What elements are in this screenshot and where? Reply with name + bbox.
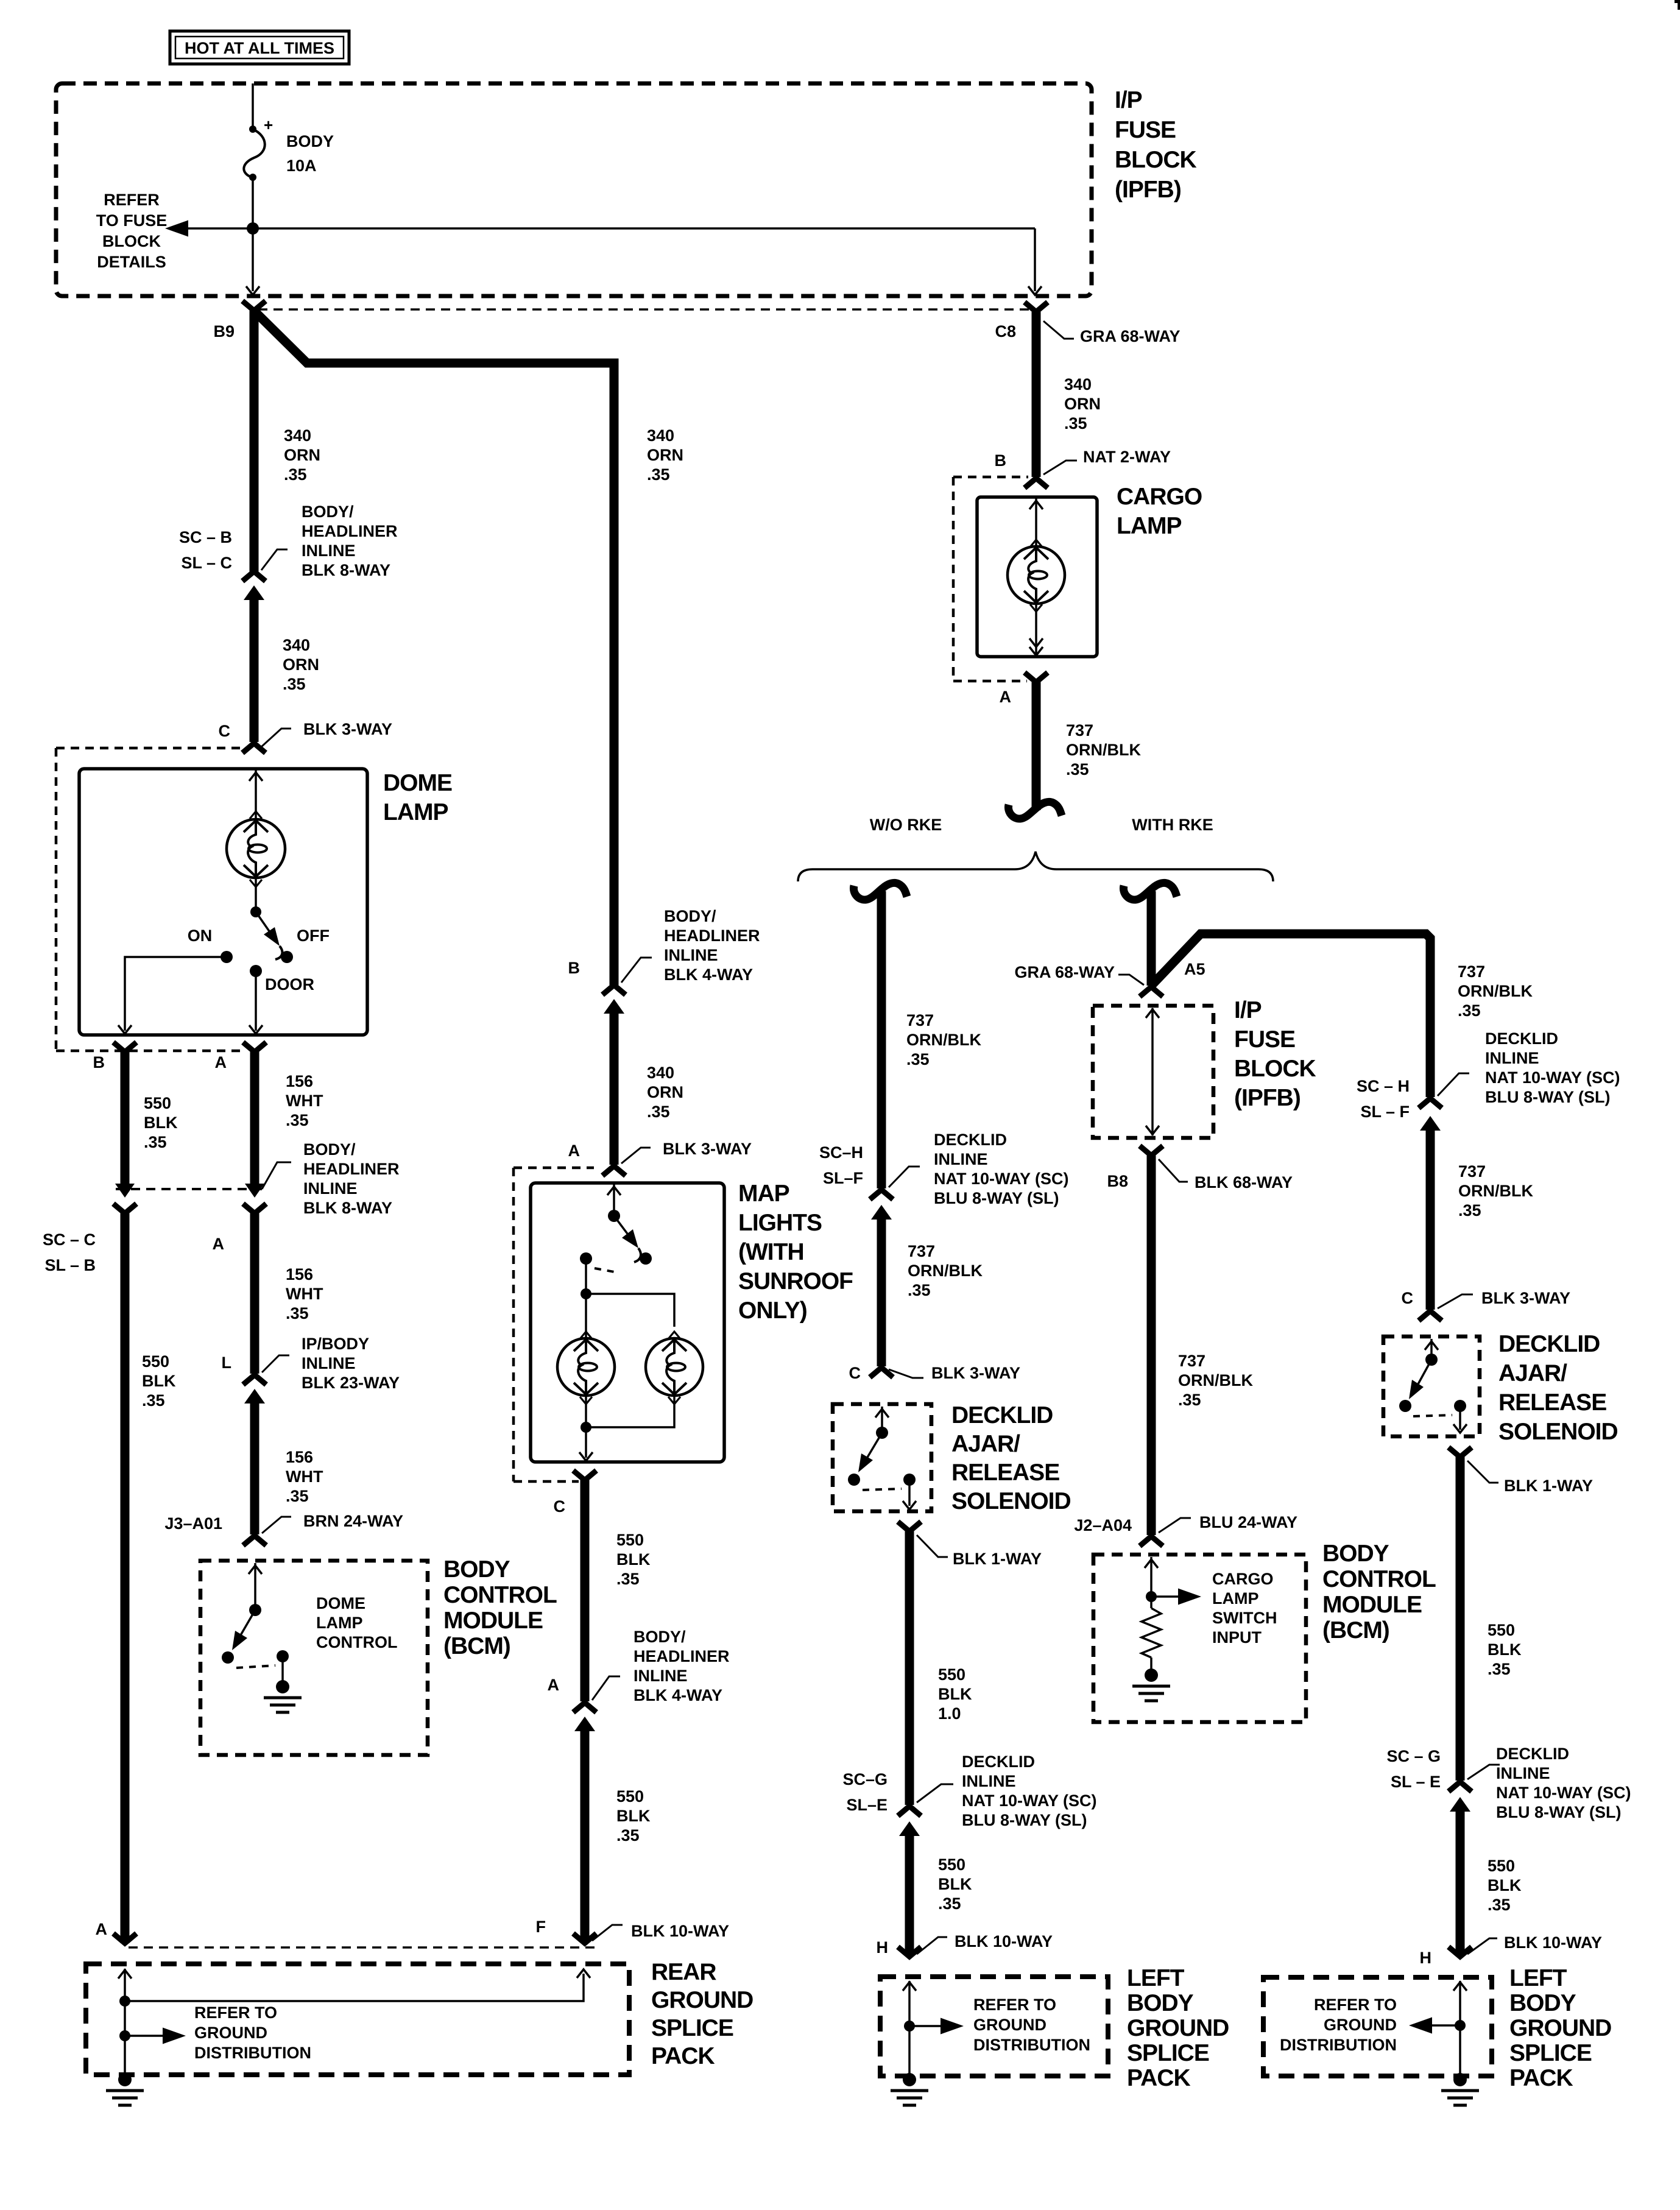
svg-text:A5: A5 bbox=[1184, 960, 1205, 978]
map lights bulb left bbox=[585, 1294, 587, 1338]
wire fuse to B9 pin bbox=[252, 228, 254, 291]
wire 340 ORN from B9 bbox=[250, 311, 259, 571]
pin A rear ground bbox=[113, 1933, 136, 1943]
pin C map lights bbox=[573, 1470, 596, 1480]
brace W/O RKE and WITH RKE split bbox=[798, 852, 1273, 881]
ground BCM2 internal bbox=[1145, 1668, 1158, 1682]
svg-text:BLU 24-WAY: BLU 24-WAY bbox=[1199, 1513, 1297, 1531]
I/P fuse block IPFB dashed box 2 bbox=[1093, 1006, 1213, 1138]
dome lamp switch contact OFF bbox=[281, 951, 293, 963]
wire branch to right decklid column bbox=[1152, 934, 1430, 1097]
ground rear splice pack bbox=[118, 2073, 132, 2086]
dome lamp bulb bbox=[255, 769, 257, 819]
wire 340 ORN from C8 bbox=[1032, 312, 1041, 477]
inline connector SC-B SL-C BLK 8-WAY bbox=[242, 571, 266, 581]
svg-text:NAT 2-WAY: NAT 2-WAY bbox=[1083, 448, 1171, 466]
svg-text:F: F bbox=[536, 1918, 546, 1936]
dome lamp switch bbox=[250, 906, 261, 917]
svg-text:J3–A01: J3–A01 bbox=[164, 1514, 222, 1533]
body control module BCM dashed box 2 bbox=[1093, 1555, 1306, 1722]
BCM dome lamp control switch bbox=[254, 1563, 256, 1610]
node map lights splice bbox=[581, 1288, 591, 1299]
label box HOT AT ALL TIMES bbox=[170, 31, 349, 64]
wire 737 ORN/BLK from B8 to BCM bbox=[1147, 1156, 1156, 1535]
wire DOOR contact to pin A bbox=[255, 971, 257, 1031]
svg-text:B: B bbox=[93, 1053, 105, 1071]
svg-text:A: A bbox=[1000, 688, 1012, 706]
left body ground splice pack dashed box 1 bbox=[880, 1977, 1108, 2076]
svg-text:A: A bbox=[548, 1676, 560, 1694]
left body ground splice pack internals 2 bbox=[1459, 1981, 1461, 2078]
rear ground splice pack internals bbox=[124, 1969, 126, 2078]
svg-text:W/O RKE: W/O RKE bbox=[870, 816, 942, 834]
svg-text:J2–A04: J2–A04 bbox=[1074, 1516, 1132, 1534]
ground BCM internal bbox=[276, 1680, 289, 1693]
decklid ajar/release solenoid dashed box left bbox=[833, 1404, 931, 1511]
wire 550 BLK long run to rear ground bbox=[121, 1213, 130, 1943]
svg-text:A: A bbox=[568, 1142, 581, 1160]
wire 737 ORN/BLK W/O RKE bbox=[877, 891, 886, 1188]
connector face dashed line rear ground bbox=[129, 1946, 595, 1949]
pin C8 connector GRA 68-WAY bbox=[1025, 302, 1048, 312]
svg-text:BLK 10-WAY: BLK 10-WAY bbox=[1504, 1933, 1602, 1952]
svg-text:BLK 1-WAY: BLK 1-WAY bbox=[1504, 1477, 1593, 1495]
svg-text:A: A bbox=[215, 1053, 227, 1071]
pin BLK 1-WAY right solenoid bbox=[1449, 1447, 1472, 1457]
map lights box bbox=[531, 1183, 724, 1462]
svg-text:DOOR: DOOR bbox=[265, 975, 314, 994]
BCM2 cargo lamp switch input circuit bbox=[1150, 1557, 1152, 1608]
connector face dashed line below IPFB bbox=[258, 308, 1029, 311]
resistor cargo lamp switch input bbox=[1142, 1608, 1161, 1657]
svg-text:C: C bbox=[554, 1497, 566, 1516]
dome lamp switch contact DOOR bbox=[250, 965, 262, 977]
svg-text:BLK 10-WAY: BLK 10-WAY bbox=[631, 1922, 729, 1940]
wire 550 BLK from map lights bbox=[581, 1480, 590, 1701]
dome lamp switch contact ON bbox=[221, 951, 233, 963]
svg-text:H: H bbox=[877, 1938, 889, 1957]
svg-text:BLK 3-WAY: BLK 3-WAY bbox=[303, 720, 392, 738]
svg-text:BRN 24-WAY: BRN 24-WAY bbox=[303, 1512, 403, 1530]
svg-text:L: L bbox=[222, 1354, 232, 1372]
I/P fuse block IPFB dashed box bbox=[56, 83, 1092, 296]
svg-text:B: B bbox=[568, 959, 581, 977]
node map lights output junction bbox=[581, 1422, 591, 1433]
wire 550 BLK to rear ground splice pack bbox=[581, 1731, 590, 1942]
wire branch B9 to map lights column bbox=[255, 312, 614, 985]
page corner mark bbox=[1675, 0, 1680, 10]
cargo lamp box bbox=[977, 497, 1097, 657]
decklid solenoid switch right bbox=[1430, 1339, 1433, 1360]
svg-text:ON: ON bbox=[188, 927, 213, 945]
dome lamp box bbox=[79, 769, 367, 1035]
svg-text:B9: B9 bbox=[213, 322, 235, 341]
wire 737 ORN/BLK WITH RKE bbox=[1147, 891, 1156, 986]
svg-text:C8: C8 bbox=[995, 322, 1016, 341]
svg-text:BLK 3-WAY: BLK 3-WAY bbox=[931, 1364, 1020, 1382]
decklid solenoid switch left bbox=[881, 1407, 883, 1433]
dome lamp dashed housing bbox=[55, 748, 58, 1051]
wire 737 ORN/BLK right bbox=[1426, 1131, 1435, 1310]
svg-text:GRA 68-WAY: GRA 68-WAY bbox=[1014, 963, 1115, 981]
body control module BCM dashed box bbox=[200, 1561, 428, 1755]
rear ground splice pack dashed box bbox=[86, 1964, 629, 2075]
ground left splice pack 1 bbox=[903, 2073, 916, 2086]
wire 550 BLK from left solenoid bbox=[905, 1531, 914, 1805]
node fuse output junction bbox=[247, 222, 259, 235]
wire ON contact to pin B bbox=[125, 957, 227, 1031]
svg-text:GRA 68-WAY: GRA 68-WAY bbox=[1080, 327, 1181, 345]
decklid ajar/release solenoid dashed box right bbox=[1383, 1336, 1480, 1436]
wire to C8 pin bbox=[1034, 228, 1036, 291]
cargo lamp bulb bbox=[1035, 497, 1037, 546]
wire 156 WHT to BCM bbox=[250, 1213, 259, 1374]
svg-text:C: C bbox=[1402, 1289, 1414, 1307]
wire 737 ORN/BLK from cargo lamp bbox=[1032, 682, 1041, 810]
svg-text:WITH RKE: WITH RKE bbox=[1132, 816, 1213, 834]
ground left splice pack 2 bbox=[1453, 2073, 1467, 2086]
IPFB2 internal wire bbox=[1151, 1008, 1154, 1135]
svg-text:BLK 3-WAY: BLK 3-WAY bbox=[663, 1140, 752, 1158]
wire 550 BLK from dome B bbox=[121, 1052, 130, 1188]
pin A cargo lamp bbox=[1025, 673, 1048, 682]
map lights dashed housing bbox=[512, 1168, 515, 1481]
svg-text:BLK 68-WAY: BLK 68-WAY bbox=[1195, 1173, 1293, 1191]
fuse BODY 10A bbox=[252, 83, 254, 128]
svg-text:H: H bbox=[1420, 1949, 1432, 1967]
map lights switch bbox=[613, 1183, 615, 1216]
left body ground splice pack dashed box 2 bbox=[1263, 1977, 1492, 2076]
pin B9 connector bbox=[242, 301, 266, 311]
harness hook W/O RKE branch bbox=[853, 883, 907, 900]
harness continuation hook cargo bbox=[1008, 802, 1062, 819]
harness hook WITH RKE branch bbox=[1123, 883, 1177, 900]
pin B dome lamp bbox=[113, 1042, 136, 1052]
svg-text:BLK 10-WAY: BLK 10-WAY bbox=[955, 1932, 1053, 1951]
pin B8 BLK 68-WAY bbox=[1140, 1146, 1163, 1156]
map lights bulb right bbox=[668, 1332, 680, 1339]
svg-text:A: A bbox=[96, 1920, 108, 1938]
wire 340 ORN to dome lamp bbox=[250, 600, 259, 742]
svg-text:HOT AT ALL TIMES: HOT AT ALL TIMES bbox=[185, 39, 334, 57]
wire 340 ORN to map lights bbox=[610, 1014, 619, 1165]
cargo lamp dashed housing bbox=[952, 477, 955, 681]
pin BLK 1-WAY left solenoid bbox=[898, 1522, 921, 1531]
svg-text:A: A bbox=[213, 1235, 225, 1253]
inline connector BODY/HEADLINER BLK 8-WAY double bbox=[115, 1184, 135, 1198]
svg-text:C: C bbox=[849, 1364, 861, 1382]
pin A dome lamp bbox=[243, 1042, 266, 1052]
svg-text:OFF: OFF bbox=[297, 927, 330, 945]
svg-text:C: C bbox=[219, 722, 231, 740]
wire 156 WHT from dome A bbox=[250, 1052, 259, 1188]
svg-text:BLK 1-WAY: BLK 1-WAY bbox=[953, 1550, 1042, 1568]
svg-text:+: + bbox=[264, 116, 273, 134]
svg-text:B8: B8 bbox=[1107, 1172, 1128, 1190]
wire refer-to-fuse-block arrow line bbox=[188, 227, 1035, 230]
left body ground splice pack internals 1 bbox=[908, 1981, 911, 2078]
svg-text:BLK 3-WAY: BLK 3-WAY bbox=[1481, 1289, 1570, 1307]
wire 550 BLK right bbox=[1456, 1457, 1465, 1781]
svg-text:B: B bbox=[995, 451, 1007, 470]
